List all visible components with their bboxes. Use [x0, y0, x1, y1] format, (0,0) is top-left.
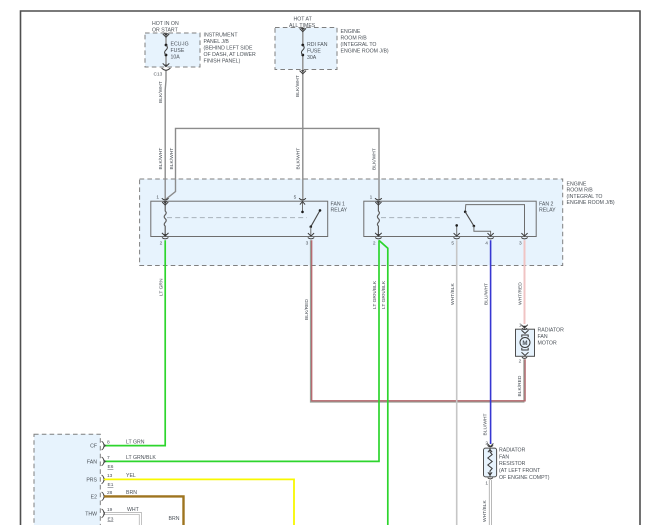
- relay1 pin 1: [156, 195, 168, 205]
- RADIATOR FAN RESISTOR label: [499, 448, 550, 481]
- svg-text:THW: THW: [85, 512, 97, 518]
- relay FAN 1 box: [151, 201, 328, 236]
- label BLK/RED (motor wire): [517, 375, 523, 396]
- relay1 pin 3: [306, 233, 315, 246]
- resistor pin 2: [485, 441, 493, 447]
- label BLK/WHT (branch wire): [169, 148, 175, 170]
- svg-text:ENGINE: ENGINE: [341, 29, 361, 35]
- wire WHT THW to bottom: [105, 513, 140, 525]
- radiator fan resistor: [484, 448, 497, 477]
- svg-text:1: 1: [519, 322, 522, 328]
- label BLK/WHT (fuse2 wire lower): [296, 148, 302, 170]
- svg-text:2: 2: [373, 241, 376, 247]
- svg-text:ROOM R/B: ROOM R/B: [341, 36, 368, 42]
- instrument panel J/B label: [204, 32, 257, 64]
- ECM row PRS: [86, 473, 136, 488]
- svg-text:FAN 1: FAN 1: [331, 201, 346, 207]
- svg-text:HOT IN ON: HOT IN ON: [152, 21, 179, 27]
- label LT GRN/BLK (right): [381, 280, 387, 309]
- label BLK/WHT (fuse1 wire): [158, 81, 164, 103]
- relay2 coil: [377, 201, 379, 236]
- svg-text:OR START: OR START: [152, 28, 179, 34]
- svg-text:5: 5: [451, 241, 454, 247]
- label BLU/WHT (above resistor): [483, 413, 489, 435]
- svg-text:13: 13: [107, 473, 113, 479]
- relay1 switch: [301, 201, 321, 236]
- svg-text:7: 7: [107, 455, 110, 461]
- label LT GRN/BLK (left): [372, 280, 378, 309]
- svg-text:3: 3: [306, 241, 309, 247]
- svg-text:(AT LEFT FRONT: (AT LEFT FRONT: [499, 468, 541, 474]
- svg-text:(INTEGRAL TO: (INTEGRAL TO: [567, 194, 603, 200]
- svg-text:RADIATOR: RADIATOR: [499, 448, 526, 454]
- svg-text:E2: E2: [91, 495, 97, 501]
- relay2 pin 4: [485, 233, 494, 246]
- svg-text:30A: 30A: [307, 55, 317, 61]
- svg-text:LT GRN: LT GRN: [159, 278, 165, 296]
- engine room R/B dashed box: [140, 179, 563, 266]
- svg-text:2: 2: [160, 241, 163, 247]
- svg-text:2: 2: [485, 441, 488, 447]
- label WHT/RED: [518, 282, 524, 305]
- motor pin 2: [519, 357, 527, 364]
- svg-text:FAN: FAN: [87, 460, 97, 466]
- svg-text:1: 1: [485, 481, 488, 487]
- svg-text:OF ENGINE COMPT): OF ENGINE COMPT): [499, 475, 550, 481]
- relay1 pin 5: [294, 195, 306, 205]
- svg-text:FUSE: FUSE: [307, 49, 321, 55]
- svg-text:BLU/WHT: BLU/WHT: [483, 413, 489, 435]
- label BRN (vertical wire): [169, 516, 180, 522]
- wire BLK/WHT fuse2 to relay1 pin 5: [302, 28, 304, 200]
- svg-text:PRS: PRS: [86, 478, 97, 484]
- svg-text:FINISH PANEL): FINISH PANEL): [204, 58, 241, 64]
- instrument panel J/B dashed box: [145, 33, 200, 67]
- fuse ECU-IG F1: [165, 42, 189, 61]
- svg-text:CF: CF: [90, 444, 97, 450]
- svg-text:BLK/RED: BLK/RED: [517, 375, 523, 396]
- relay FAN 2 box: [364, 201, 536, 236]
- label WHT/BLK (below resistor): [482, 500, 488, 522]
- svg-text:(BEHIND LEFT SIDE: (BEHIND LEFT SIDE: [204, 45, 253, 51]
- svg-text:C13: C13: [154, 72, 163, 78]
- svg-text:3: 3: [519, 241, 522, 247]
- relay1 coil: [164, 201, 166, 236]
- svg-text:WHT/BLK: WHT/BLK: [482, 500, 488, 522]
- wire WHT/RED relay2 pin3 to motor pin1: [524, 240, 526, 324]
- svg-text:M: M: [522, 340, 527, 347]
- svg-text:FUSE: FUSE: [171, 48, 185, 54]
- svg-text:E1: E1: [108, 482, 114, 488]
- svg-text:E6: E6: [108, 464, 114, 470]
- svg-text:E3: E3: [108, 517, 114, 523]
- svg-text:RESISTOR: RESISTOR: [499, 461, 526, 467]
- svg-text:BLK/WHT: BLK/WHT: [158, 148, 164, 170]
- relay2 actuation dashed line: [381, 217, 462, 219]
- svg-text:1: 1: [156, 195, 159, 201]
- svg-text:BLK/WHT: BLK/WHT: [158, 81, 164, 103]
- RADIATOR FAN MOTOR label: [538, 328, 565, 347]
- wire WHT/BLK relay2 pin5 to bottom: [456, 240, 458, 525]
- HOT IN ON OR START label: [152, 21, 179, 34]
- wire BLK/WHT rail branch: [166, 128, 379, 199]
- svg-text:1: 1: [370, 195, 373, 201]
- svg-text:RDI FAN: RDI FAN: [307, 42, 328, 48]
- label BLK/WHT (fuse2 wire upper): [295, 75, 301, 97]
- svg-text:BLK/WHT: BLK/WHT: [295, 75, 301, 97]
- svg-text:LT GRN/BLK: LT GRN/BLK: [372, 280, 378, 309]
- svg-text:ROOM R/B: ROOM R/B: [567, 188, 594, 194]
- wire LT GRN/BLK relay2 pin2 to FAN row: [104, 240, 379, 461]
- radiator fan motor: [516, 329, 535, 356]
- svg-text:HOT AT: HOT AT: [294, 17, 313, 23]
- motor pin 1: [519, 322, 528, 329]
- label WHT/BLK (pin5 wire): [450, 283, 456, 305]
- label BLK/RED (relay1 pin3): [304, 299, 310, 320]
- svg-text:LT GRN/BLK: LT GRN/BLK: [126, 455, 156, 461]
- wire LT GRN/BLK branch to bottom: [379, 240, 388, 525]
- svg-text:RELAY: RELAY: [539, 208, 556, 214]
- engine room R/B fuse dashed box: [275, 28, 337, 70]
- svg-text:WHT/RED: WHT/RED: [518, 282, 524, 305]
- svg-text:YEL: YEL: [126, 473, 136, 479]
- svg-text:2: 2: [519, 359, 522, 365]
- svg-text:LT GRN/BLK: LT GRN/BLK: [381, 280, 387, 309]
- wire WHT/BLK below resistor: [489, 480, 492, 525]
- relay2 pin 1: [370, 195, 382, 205]
- svg-text:MOTOR: MOTOR: [538, 341, 557, 347]
- ECM row E2: [91, 490, 138, 501]
- relay2 pin 2: [373, 233, 382, 247]
- FAN 1 RELAY label: [331, 201, 348, 213]
- svg-text:INSTRUMENT: INSTRUMENT: [204, 32, 239, 38]
- ECM row THW: [85, 507, 139, 522]
- svg-text:ENGINE: ENGINE: [567, 181, 587, 187]
- wire BLK/WHT fuse1 to relay1 pin 1: [164, 33, 167, 200]
- label BLK/WHT (rail to relay2): [372, 148, 378, 170]
- wire BLK/RED relay1 pin3 to motor pin2: [311, 240, 526, 402]
- wire LT GRN relay1 pin2 to CF: [104, 240, 165, 445]
- relay2 pin 5: [451, 233, 460, 246]
- svg-text:BLK/WHT: BLK/WHT: [372, 148, 378, 170]
- label LT GRN (vertical): [159, 278, 165, 296]
- svg-text:ECU-IG: ECU-IG: [171, 42, 189, 48]
- wire BRN E2 to bottom: [104, 496, 184, 525]
- svg-text:FAN: FAN: [538, 334, 548, 340]
- ECM connector dashed box: [34, 434, 100, 525]
- fuse2 box top pin arrow: [300, 28, 306, 32]
- svg-text:ENGINE ROOM J/B): ENGINE ROOM J/B): [341, 49, 389, 55]
- ECM row CF: [90, 439, 145, 450]
- svg-text:8: 8: [107, 439, 110, 445]
- svg-text:10A: 10A: [171, 55, 181, 61]
- label BLU/WHT (pin4 wire): [484, 283, 490, 305]
- svg-text:BLK/WHT: BLK/WHT: [169, 148, 175, 170]
- svg-text:4: 4: [485, 241, 488, 247]
- engine room R/B fuse box label: [341, 29, 389, 55]
- FAN 2 RELAY label: [539, 201, 556, 213]
- svg-text:LT GRN: LT GRN: [126, 439, 145, 445]
- svg-text:BLK/RED: BLK/RED: [304, 299, 310, 320]
- fuse RDI FAN F2: [301, 42, 327, 61]
- svg-text:BLK/WHT: BLK/WHT: [296, 148, 302, 170]
- ECM row FAN: [87, 455, 156, 470]
- svg-text:BLU/WHT: BLU/WHT: [484, 283, 490, 305]
- relay2 pin 3: [519, 233, 528, 246]
- svg-text:WHT/BLK: WHT/BLK: [450, 283, 456, 305]
- svg-text:FAN: FAN: [499, 454, 509, 460]
- wire YEL PRS to bottom: [104, 479, 294, 525]
- svg-text:RELAY: RELAY: [331, 208, 348, 214]
- svg-text:OF DASH, AT LOWER: OF DASH, AT LOWER: [204, 52, 257, 58]
- svg-text:RADIATOR: RADIATOR: [538, 328, 565, 334]
- relay1 actuation dashed line: [167, 217, 307, 219]
- HOT AT ALL TIMES label: [289, 17, 316, 30]
- engine room R/B label: [567, 181, 615, 206]
- relay1 pin 2: [160, 233, 169, 247]
- svg-text:ENGINE ROOM J/B): ENGINE ROOM J/B): [567, 200, 615, 206]
- wire BLU/WHT relay2 pin4 to resistor: [490, 240, 492, 444]
- fuse2 box bottom pin arrow: [300, 70, 306, 74]
- svg-text:FAN 2: FAN 2: [539, 201, 554, 207]
- fuse1 box top pin arrow: [163, 33, 169, 37]
- resistor pin 1: [485, 478, 493, 487]
- svg-text:PANEL J/B: PANEL J/B: [204, 39, 230, 45]
- svg-text:5: 5: [294, 195, 297, 201]
- fuse1 box bottom pin C13: [154, 63, 171, 77]
- svg-text:(INTEGRAL TO: (INTEGRAL TO: [341, 42, 377, 48]
- label BLK/WHT (fuse1 wire lower): [158, 148, 164, 170]
- svg-text:BRN: BRN: [169, 516, 180, 522]
- relay2 switch: [455, 205, 524, 237]
